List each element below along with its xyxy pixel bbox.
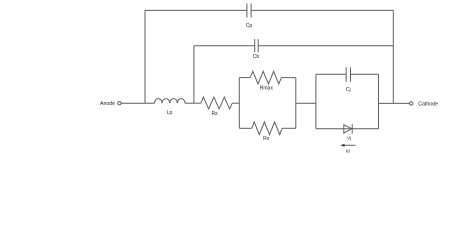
svg-text:Rv: Rv (263, 136, 270, 142)
wire Cb-loop left vertical (193, 46, 195, 103)
svg-text:Anode: Anode (100, 101, 115, 107)
wire box2 top-left segment (316, 73, 346, 75)
wire Cp/Cb right shared vertical (392, 10, 394, 103)
wire box1 right edge (295, 78, 297, 129)
wire box1 top-left segment (239, 77, 250, 79)
wire box2 right edge (378, 74, 380, 128)
wire box2 top-right segment (351, 73, 379, 75)
resistor Rmax (250, 71, 281, 84)
wire box1 bottom-right segment (282, 127, 296, 129)
svg-text:Cp: Cp (246, 23, 253, 29)
wire Rs to box1 (232, 102, 239, 104)
svg-text:Lp: Lp (167, 110, 173, 116)
diode D1 (344, 124, 352, 134)
wire box1 to box2 (296, 102, 316, 104)
svg-text:Cb: Cb (253, 54, 260, 60)
wire anode to inductor (121, 102, 154, 104)
current arrow Id (340, 144, 355, 147)
capacitor Cb (255, 39, 259, 52)
svg-text:Rmax: Rmax (260, 85, 274, 91)
wire box2 bottom edge (316, 128, 379, 130)
wire box2 left edge (315, 74, 317, 128)
wire box1 top-right segment (281, 77, 295, 79)
wire box2 to cathode (379, 102, 410, 104)
node Anode terminal (118, 102, 121, 105)
capacitor Cj (346, 67, 350, 82)
wire Cb branch horizontal (194, 45, 393, 47)
wire box1 left edge (238, 78, 240, 129)
wire Cp-loop left vertical (144, 10, 146, 103)
svg-text:Cj: Cj (346, 87, 351, 93)
wire box1 bottom-left segment (239, 127, 251, 129)
resistor Rv (252, 122, 282, 135)
svg-text:Id: Id (346, 148, 350, 153)
node Cathode terminal (410, 102, 413, 105)
wire inductor to Rs (185, 102, 201, 104)
svg-text:Rs: Rs (212, 111, 219, 117)
inductor Lp (155, 99, 185, 104)
resistor Rs (201, 97, 232, 109)
wire top (Cp branch) (145, 9, 393, 11)
svg-text:Cathode: Cathode (418, 101, 438, 107)
svg-text:Vj: Vj (347, 135, 351, 140)
capacitor Cp (247, 4, 251, 18)
